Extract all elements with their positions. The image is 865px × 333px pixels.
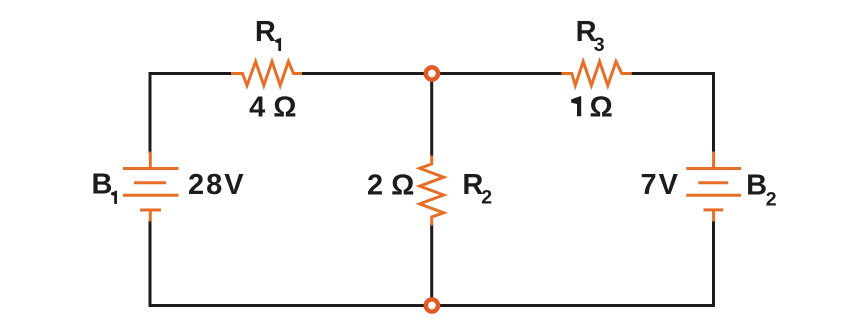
- svg-text:2: 2: [766, 189, 777, 211]
- wire top-left segment (left corner to R1): [150, 72, 232, 75]
- battery B2 (7V): [686, 152, 741, 222]
- wire top-right segment (R3 to right corner): [631, 72, 714, 75]
- node A (top junction): [426, 67, 438, 79]
- svg-text:R: R: [462, 169, 483, 201]
- wire left side lower (B1 to bottom corner): [149, 221, 152, 308]
- svg-text:7V: 7V: [641, 169, 680, 201]
- wire right side lower (B2 to bottom corner): [712, 221, 715, 308]
- wire left side upper (top corner to B1): [149, 72, 152, 153]
- wire bottom segment: [150, 304, 714, 307]
- svg-text:3: 3: [594, 34, 605, 56]
- svg-text:B: B: [746, 169, 767, 201]
- resistor R3 (1 ohm) zigzag: [561, 62, 632, 86]
- label 1 ohm (R3 value): [571, 96, 581, 116]
- battery B1 (28V): [123, 152, 179, 222]
- wire middle upper (node A down to R2): [430, 74, 433, 158]
- node B (bottom junction): [426, 299, 438, 311]
- wire right side upper (corner to B2): [712, 72, 715, 153]
- resistor R2 (2 ohm) vertical zigzag: [420, 156, 444, 226]
- svg-text:2 Ω: 2 Ω: [367, 169, 414, 201]
- resistor R1 (4 ohm) zigzag: [231, 62, 302, 86]
- svg-text:B: B: [92, 168, 113, 200]
- svg-text:4 Ω: 4 Ω: [249, 91, 296, 123]
- wire middle lower (R2 down to node B): [430, 224, 433, 306]
- svg-text:Ω: Ω: [590, 91, 613, 123]
- svg-text:2: 2: [481, 186, 492, 208]
- wire top-middle segment (R1 to node A area to R3): [301, 72, 562, 75]
- svg-text:28V: 28V: [188, 169, 246, 201]
- svg-text:R: R: [255, 16, 276, 48]
